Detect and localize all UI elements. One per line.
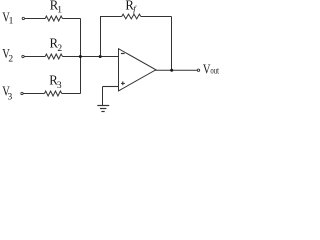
terminal Vout [197, 69, 199, 71]
terminal V2 [22, 55, 24, 57]
wire V2 to R2 [25, 56, 46, 58]
svg-text:out: out [210, 66, 219, 77]
svg-text:1: 1 [9, 17, 14, 27]
wire non-inverting input [103, 86, 119, 88]
wire R1 to corner [63, 18, 81, 20]
wire output [155, 69, 197, 71]
node V1 label [2, 10, 13, 27]
wire R2 to op-amp inverting input [63, 56, 119, 58]
junction feedback tap [99, 55, 102, 58]
node V3 label [2, 83, 12, 102]
op-amp U1 [119, 49, 156, 91]
ground [97, 105, 109, 107]
svg-text:3: 3 [8, 92, 13, 102]
wire V1 to R1 [25, 18, 45, 20]
op-amp minus sign [121, 53, 125, 55]
node Vout label [203, 61, 219, 76]
terminal V3 [21, 92, 23, 94]
wire R3 to corner [62, 93, 81, 95]
svg-text:2: 2 [8, 54, 13, 64]
wire feedback riser [100, 17, 102, 57]
wire V3 to R3 [24, 93, 45, 95]
wire vertical summing bus [80, 19, 82, 94]
wire feedback drop [171, 17, 173, 71]
resistor Rf [122, 14, 141, 19]
resistor R1 [45, 16, 62, 21]
svg-text:2: 2 [57, 44, 62, 54]
svg-text:1: 1 [57, 5, 62, 15]
junction output node [170, 69, 173, 72]
wire feedback top left [100, 16, 122, 18]
svg-text:3: 3 [57, 81, 62, 91]
resistor R3 [45, 91, 62, 96]
resistor R2 [45, 54, 62, 59]
wire to ground [102, 87, 104, 106]
node V2 label [2, 46, 13, 64]
terminal V1 [22, 17, 24, 19]
junction summing node [79, 55, 82, 58]
op-amp plus sign [121, 81, 125, 85]
wire feedback top right [141, 16, 172, 18]
